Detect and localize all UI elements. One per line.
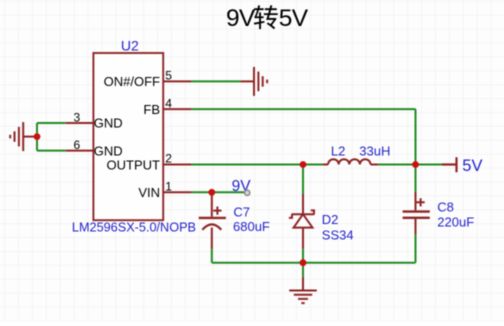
wire pin5 to ground [191,80,240,82]
wire vertical joining GND pins [36,123,38,151]
svg-text:ON#/OFF: ON#/OFF [104,74,160,89]
wire pin3 to GND junction [37,122,66,124]
ground symbol (right of pin 5, rotated pointing right) [240,80,254,82]
wire 5V node to flag [416,164,443,166]
capacitor C7 [199,192,226,249]
wire VIN to 9V port [191,191,245,193]
svg-text:3: 3 [74,111,81,125]
svg-text:LM2596SX-5.0/NOPB: LM2596SX-5.0/NOPB [72,221,196,235]
junction dot 5V node [412,161,419,168]
wire C7 bottom [211,249,213,263]
pin 6 stub [66,150,94,152]
svg-text:D2: D2 [322,212,339,227]
wire OUTPUT to L2 [191,164,323,166]
svg-text:1: 1 [165,180,172,194]
ground symbol (left, rotated pointing left) [23,136,37,138]
svg-text:33uH: 33uH [359,143,390,158]
svg-text:2: 2 [165,152,172,166]
svg-text:U2: U2 [121,37,139,53]
svg-text:OUTPUT: OUTPUT [107,157,161,172]
svg-text:5V: 5V [462,157,482,175]
wire OUTPUT node down to D2 [302,165,304,195]
junction dot GND node [34,133,41,140]
5V net flag bar [442,157,457,172]
pin 1 stub [163,191,191,193]
diode D2 SS34 schottky [289,194,315,249]
svg-text:5V: 5V [279,5,309,32]
svg-text:6: 6 [74,138,81,152]
pin 3 stub [66,122,94,124]
svg-text:C7: C7 [233,204,250,219]
svg-text:GND: GND [94,116,123,131]
pin 2 stub [163,164,191,166]
svg-text:220uF: 220uF [437,215,474,230]
ground symbol (bottom) [302,277,304,291]
svg-text:SS34: SS34 [322,228,354,243]
svg-text:9V: 9V [226,5,256,32]
capacitor C8 [403,192,430,234]
inductor L2 [323,159,379,164]
unconnected port circle at 9V [245,190,250,195]
svg-text:C8: C8 [437,199,454,214]
svg-text:VIN: VIN [138,185,160,200]
junction dot OUTPUT/L2/D2 node [300,161,307,168]
pin 5 stub [163,80,191,82]
wire pin6 to GND junction [37,150,66,152]
wire bottom junction to ground [302,263,304,277]
IC U2 LM2596 body [93,53,163,220]
pin 4 stub [163,108,191,110]
svg-text:5: 5 [165,69,172,83]
svg-text:GND: GND [94,143,123,158]
wire 5V node down to C8 [415,165,417,193]
svg-text:L2: L2 [331,143,345,158]
junction dot VIN/C7 node [208,189,215,196]
wire L2 to 5V node [378,164,415,166]
svg-text:FB: FB [143,102,160,117]
wire FB vertical down to 5V node [415,109,417,164]
wire FB horizontal [191,108,416,110]
wire bottom ground rail [212,262,416,264]
svg-text:4: 4 [165,96,172,110]
wire D2 bottom [302,249,304,263]
wire C8 bottom [415,234,417,263]
svg-text:680uF: 680uF [233,219,270,234]
junction dot bottom rail node [300,259,307,266]
